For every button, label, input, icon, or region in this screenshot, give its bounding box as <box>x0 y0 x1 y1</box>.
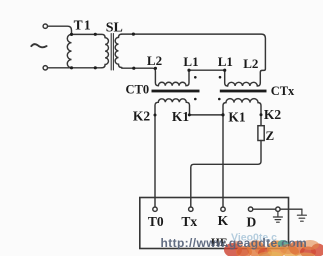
wire D to earth <box>253 208 302 210</box>
instrument box HE <box>140 198 289 249</box>
wire Z bottom to Tx <box>191 141 261 208</box>
polarity dot CT0 primary <box>194 76 197 79</box>
AC tilde symbol <box>31 44 46 47</box>
svg-text:K1: K1 <box>228 110 246 125</box>
earth terminal circle <box>276 207 280 211</box>
wire CT0 L1 to CTx L1 <box>189 70 228 86</box>
wire AC bottom bus to SL left winding bottom <box>48 67 102 69</box>
watermark logo blobs <box>224 240 323 256</box>
ground symbol inside box <box>273 212 282 223</box>
junction SL secondary top <box>132 33 135 36</box>
polarity dot CTx secondary <box>218 98 221 101</box>
junction top bus <box>94 33 97 36</box>
svg-text:T1: T1 <box>74 17 92 32</box>
svg-text:L2: L2 <box>147 53 162 68</box>
core SL <box>111 34 113 71</box>
svg-text:SL: SL <box>106 20 123 35</box>
terminal K <box>221 207 225 211</box>
junction CT0 K2 lead <box>154 114 157 117</box>
svg-text:D: D <box>247 214 257 229</box>
junction CTx K2 lead <box>260 113 263 116</box>
svg-text:CT0: CT0 <box>125 83 149 97</box>
wire top bus T1 to SL <box>72 34 106 37</box>
svg-text:K2: K2 <box>264 107 282 122</box>
AC source terminal top <box>43 24 47 28</box>
winding CT0 primary <box>158 70 189 86</box>
svg-text:T0: T0 <box>148 214 164 229</box>
svg-text:L1: L1 <box>218 54 233 69</box>
svg-text:CTx: CTx <box>271 84 295 98</box>
core CTx <box>220 90 267 93</box>
winding CTx primary <box>228 82 261 86</box>
winding CTx secondary <box>223 99 261 208</box>
polarity dot CT0 secondary <box>194 98 197 101</box>
junction CT0 L2 corner <box>154 67 157 70</box>
core CT0 <box>152 90 200 93</box>
terminal T0 <box>153 207 157 211</box>
svg-text:Z: Z <box>265 128 274 143</box>
burden resistor Z <box>258 126 264 141</box>
wire CT0 K1 to CTx K1 <box>191 114 224 116</box>
svg-text:Tx: Tx <box>181 214 197 229</box>
wire AC top to T1 top <box>48 26 72 34</box>
junction CT0 K1 corner <box>188 113 191 116</box>
wire top bus SL to CTx drop <box>122 34 266 83</box>
junction CTx K1 lead <box>221 113 224 116</box>
junction T1 top <box>70 33 73 36</box>
winding CT0 secondary <box>155 99 191 207</box>
svg-text:L1: L1 <box>183 54 198 69</box>
watermark blob overlay on text tail <box>237 244 296 256</box>
junction T1 bottom <box>70 66 73 69</box>
polarity dot CTx primary <box>219 76 222 79</box>
junction CTx L1 <box>223 69 226 72</box>
svg-text:K2: K2 <box>133 109 151 124</box>
ground symbol outside box <box>297 209 306 221</box>
terminal Tx <box>189 207 193 211</box>
winding SL primary <box>102 38 109 68</box>
junction SL secondary bottom <box>132 67 135 70</box>
svg-text:L2: L2 <box>243 56 258 71</box>
junction bottom bus <box>94 66 97 69</box>
winding SL secondary <box>115 34 122 67</box>
terminal D <box>248 207 252 211</box>
svg-text:K1: K1 <box>172 109 190 124</box>
svg-text:K: K <box>218 213 229 228</box>
AC source terminal bottom <box>43 66 47 70</box>
wire bottom bus SL to CT0 L2 lead <box>122 68 159 86</box>
junction CT0 L1 <box>187 69 190 72</box>
winding T1 <box>67 34 71 68</box>
